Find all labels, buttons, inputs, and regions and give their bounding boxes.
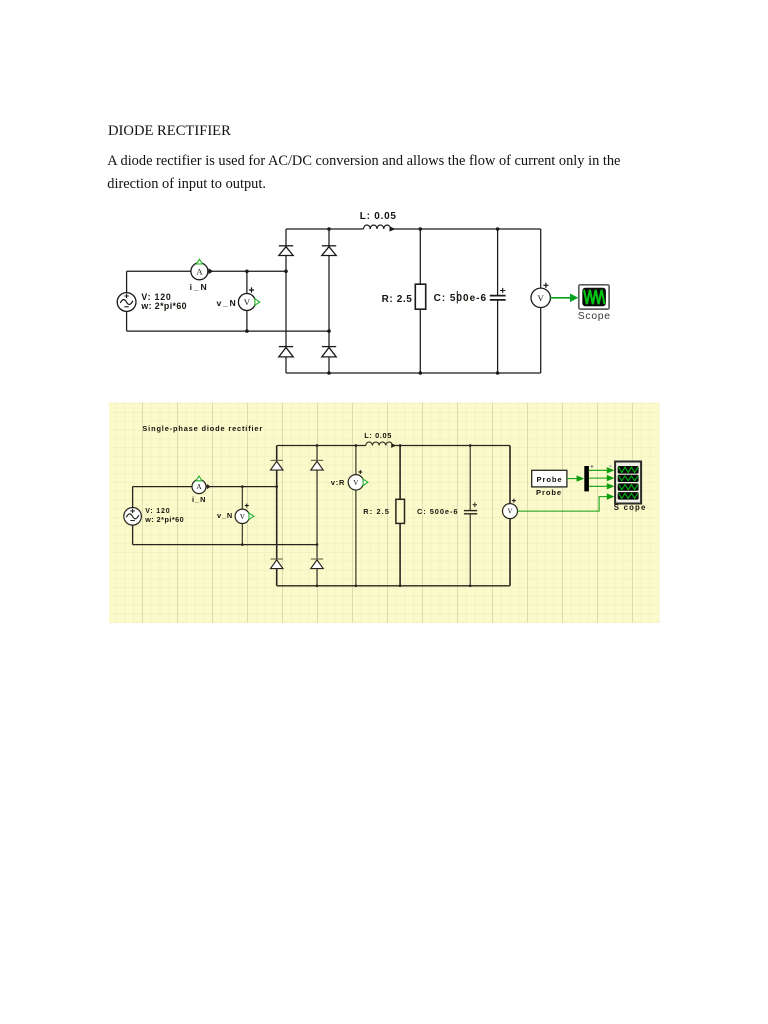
svg-text:V: V	[244, 297, 251, 307]
svg-text:V: V	[353, 479, 359, 487]
svg-text:A: A	[196, 266, 203, 276]
svg-text:V: V	[507, 508, 513, 516]
svg-text:V: V	[240, 513, 246, 521]
svg-text:A: A	[196, 483, 202, 491]
svg-text:V: V	[538, 293, 545, 303]
